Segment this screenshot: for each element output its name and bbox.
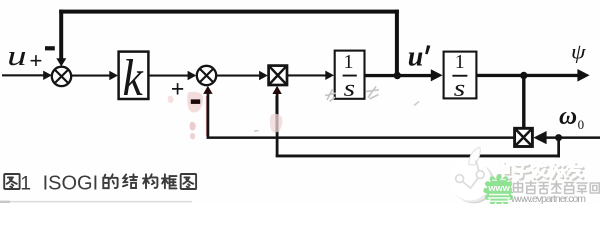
watermark logo shadow (453, 163, 495, 203)
wire feedback F1 horizontal (M2 output to S2) (207, 136, 515, 139)
artifact gray tick left of F2 vertical (254, 130, 259, 133)
faint bottom border line (0, 201, 192, 203)
wire omega0 input from right edge (546, 136, 600, 139)
fraction bar I1 (343, 75, 357, 77)
artifact gray smudge left of I1 (325, 89, 336, 101)
wire top feedback horizontal (59, 10, 399, 14)
svg-text:www.evpartner.com: www.evpartner.com (510, 193, 586, 204)
watermark char 电 (498, 163, 511, 179)
wire input u (2, 74, 45, 76)
watermark badge top marks (492, 180, 497, 181)
caption char 的 (103, 174, 117, 188)
svg-text:k: k (122, 48, 143, 106)
label minus (S1) (45, 46, 55, 50)
watermark char 发 (533, 163, 548, 180)
arrowhead into I1 (325, 71, 334, 80)
artifact pink dash 2 below S2 (190, 133, 195, 139)
wire S1 to gain k (71, 75, 110, 77)
arrowhead into gain k (109, 71, 118, 80)
svg-text:www: www (487, 183, 510, 193)
arrowhead into M1 (259, 71, 268, 80)
svg-text:ω: ω (559, 103, 577, 130)
caption char 图 (label) (4, 174, 19, 189)
wire feedback F2 horizontal (276, 155, 560, 158)
wire top feedback left vertical (59, 10, 63, 60)
summer S1 cross (55, 70, 68, 83)
wire feedback F1 vertical up to S2 (207, 94, 210, 139)
multiplier M1 cross (270, 67, 286, 84)
wire k to summer S2 (149, 75, 189, 77)
watermark char 友 (568, 163, 583, 180)
faint bottom border left nub (0, 201, 10, 203)
multiplier M1 box (269, 66, 287, 85)
watermark logo white circle (450, 160, 491, 201)
label k (122, 48, 143, 106)
wire I1 to node A (thick) (365, 74, 432, 77)
caption char 结 (123, 174, 137, 188)
label minus (S2, dark red) (191, 99, 200, 104)
multiplier M2 cross (516, 129, 532, 145)
fraction bar I2 (452, 75, 467, 77)
artifact red fringe on F1 vertical (205, 96, 208, 136)
artifact pink smear near S2 minus (187, 92, 203, 113)
svg-text:+: + (29, 49, 42, 74)
caption char 框 (162, 174, 177, 188)
summer S2 cross (200, 69, 213, 82)
wire I2 to output (thick) (476, 74, 578, 77)
arrowhead into S2 (188, 71, 197, 80)
summer S2 circle (197, 66, 216, 85)
integrator I1 box (335, 51, 365, 99)
node C (omega0 junction dot) (555, 134, 562, 141)
watermark logo inner icon (456, 161, 484, 189)
svg-text:s: s (344, 76, 356, 102)
arrowhead into summer S1 top (56, 58, 66, 66)
integrator I2 box (444, 52, 477, 99)
svg-text:ψ: ψ (571, 40, 587, 64)
summer S1 circle (52, 67, 71, 86)
label prime of u' (425, 45, 430, 54)
arrowhead into M2 right side (533, 131, 546, 144)
wire S2 to multiplier M1 (216, 75, 259, 77)
wire M1 to integrator I1 (287, 74, 326, 76)
svg-text:u: u (7, 41, 27, 72)
multiplier M2 box (515, 128, 533, 146)
arrowhead input into S1 (43, 71, 52, 80)
caption char 构 (143, 174, 157, 188)
artifact pink smudge on F2 vertical (270, 114, 282, 133)
watermark badge stripes (489, 194, 509, 196)
svg-text:1: 1 (20, 173, 31, 195)
arrowhead F1 into S2 bottom (203, 86, 212, 94)
wire feedback F2 vertical from node C (557, 138, 560, 158)
artifact pink dash column below S2 (190, 122, 196, 131)
artifact tiny gray tick below u' (414, 102, 419, 106)
caption: 图1 ISOGI的结构框图 (4, 174, 196, 189)
svg-text:1: 1 (344, 51, 354, 73)
svg-text:s: s (454, 76, 466, 102)
watermark green badge (483, 175, 514, 207)
watermark row2 gray characters (513, 180, 600, 193)
watermark row1: 电子发烧友 (white embossed) (498, 163, 584, 180)
svg-text:0: 0 (578, 117, 585, 132)
watermark char 子 (514, 164, 530, 179)
wire top feedback right vertical (from node u') (395, 10, 399, 76)
artifact gray smudge right of I1 (366, 87, 379, 100)
arrowhead F2 into M1 bottom (272, 86, 281, 94)
caption char 图 (second) (181, 174, 196, 189)
gain block k (119, 52, 149, 99)
svg-text:ISOGI: ISOGI (43, 172, 99, 194)
node A (u' junction dot) (394, 72, 401, 79)
artifact faint pink left of plus (168, 96, 174, 103)
watermark logo tail (breaks feedback line F2) (469, 147, 481, 165)
watermark char 烧 (552, 163, 568, 179)
node B (psi junction dot) (520, 72, 527, 79)
arrowhead output psi (577, 69, 589, 82)
artifact red fringe on F2 vertical (274, 96, 277, 133)
wire feedback F2 vertical up to M1 (276, 94, 279, 157)
wire node B down to multiplier M2 (thick) (522, 76, 525, 129)
svg-text:u: u (408, 42, 424, 73)
svg-text:1: 1 (455, 51, 465, 73)
arrowhead into I2 (431, 69, 443, 81)
